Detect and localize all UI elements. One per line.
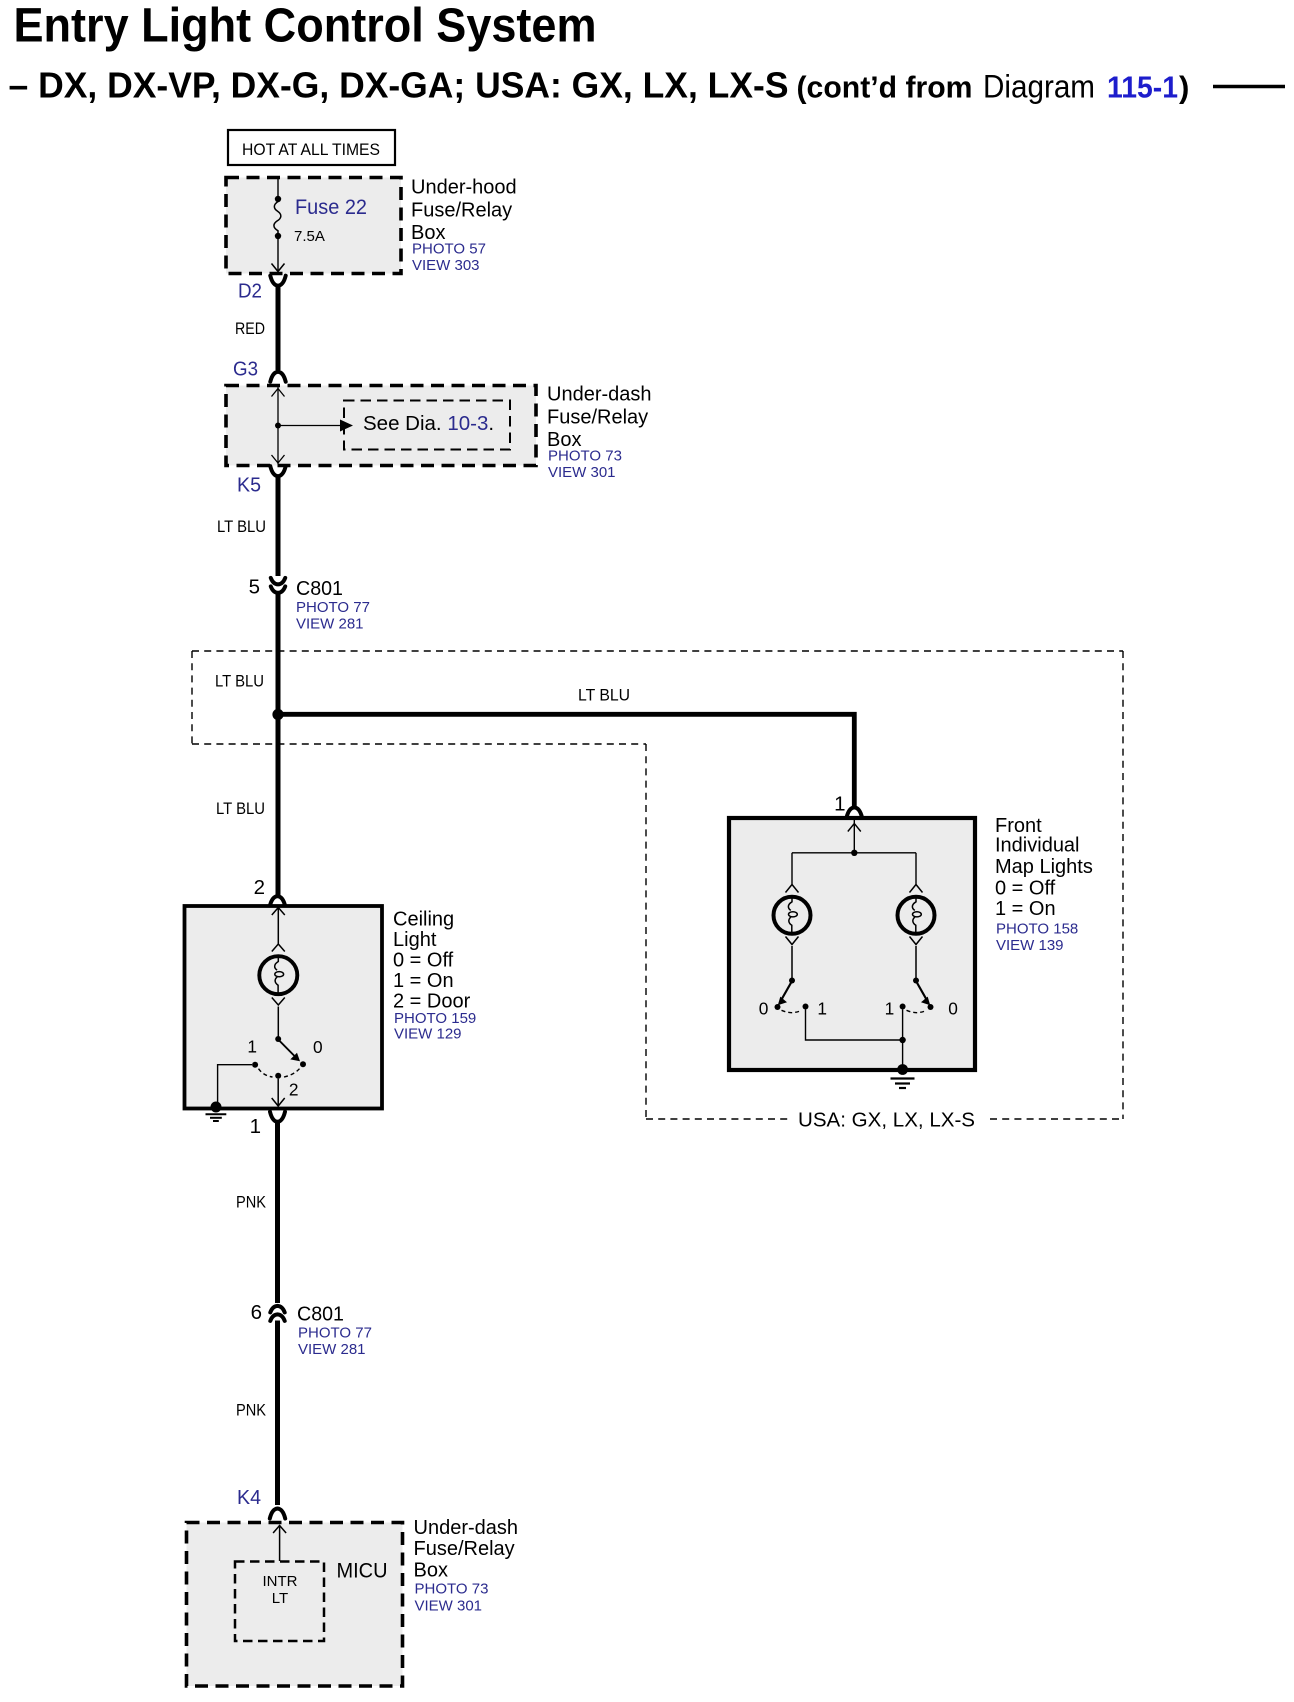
svg-text:LT BLU: LT BLU: [578, 686, 630, 705]
connector C801 pin 6: [251, 1301, 372, 1358]
pin K4: [237, 1486, 285, 1519]
svg-text:PHOTO 73: PHOTO 73: [548, 448, 622, 465]
svg-text:VIEW 129: VIEW 129: [394, 1026, 462, 1043]
svg-text:0: 0: [313, 1037, 323, 1057]
left map switch: [759, 978, 827, 1019]
svg-text:PHOTO 73: PHOTO 73: [415, 1580, 489, 1597]
svg-text:6: 6: [251, 1301, 262, 1324]
svg-text:VIEW 139: VIEW 139: [996, 937, 1064, 954]
svg-text:0 = Off: 0 = Off: [393, 950, 454, 972]
svg-text:– DX, DX-VP, DX-G, DX-GA; USA:: – DX, DX-VP, DX-G, DX-GA; USA: GX, LX, L…: [9, 64, 789, 105]
under-hood fuse/relay box: [226, 177, 517, 275]
svg-text:VIEW 281: VIEW 281: [296, 616, 364, 633]
pin G3: [233, 358, 286, 382]
svg-text:C801: C801: [297, 1303, 344, 1326]
svg-text:Fuse/Relay: Fuse/Relay: [414, 1538, 515, 1560]
under-dash fuse/relay box (MICU): [187, 1517, 519, 1686]
svg-text:PHOTO 159: PHOTO 159: [394, 1010, 476, 1027]
front individual map lights unit: [729, 815, 1093, 1070]
svg-text:1 = On: 1 = On: [995, 898, 1056, 920]
svg-text:PHOTO 158: PHOTO 158: [996, 921, 1078, 938]
pin 2 ceiling light: [254, 876, 286, 906]
svg-text:Fuse/Relay: Fuse/Relay: [411, 200, 512, 222]
wire RED D2 to G3: [276, 286, 281, 371]
svg-text:K4: K4: [237, 1486, 261, 1509]
svg-text:): ): [1179, 69, 1189, 104]
svg-text:VIEW 303: VIEW 303: [412, 257, 480, 274]
right map switch: [885, 978, 958, 1019]
svg-text:2: 2: [289, 1080, 299, 1100]
pin 1 map lights: [834, 793, 862, 818]
pin K5: [237, 466, 286, 496]
svg-text:PHOTO 57: PHOTO 57: [412, 241, 486, 258]
svg-text:Front: Front: [995, 815, 1042, 837]
map lights ground wiring: [806, 1010, 903, 1069]
svg-text:0: 0: [759, 999, 769, 1019]
svg-text:Ceiling: Ceiling: [393, 908, 454, 930]
title dash line: [1213, 85, 1285, 88]
junction in under-dash box: [275, 423, 281, 429]
arrow to See Dia reference: [278, 420, 353, 432]
wire PNK ceiling to C801: [275, 1122, 280, 1304]
ground (map lights): [891, 1064, 915, 1088]
svg-text:Light: Light: [393, 929, 437, 951]
svg-text:C801: C801: [296, 577, 343, 600]
svg-text:RED: RED: [235, 319, 265, 338]
svg-text:VIEW 281: VIEW 281: [298, 1341, 366, 1358]
svg-text:Diagram: Diagram: [983, 68, 1095, 104]
USA variant dashed region boundary: [192, 651, 1123, 1119]
ceiling ground wiring: [218, 1065, 252, 1104]
wire LT BLU junction to map lights: [278, 714, 854, 806]
pin D2: [238, 276, 286, 303]
svg-text:PHOTO 77: PHOTO 77: [296, 599, 370, 616]
svg-text:D2: D2: [238, 280, 262, 303]
svg-text:HOT AT ALL TIMES: HOT AT ALL TIMES: [242, 140, 380, 159]
svg-text:1: 1: [817, 999, 827, 1019]
svg-text:Box: Box: [414, 1559, 448, 1581]
ceiling switch pin2 arrow down: [272, 1079, 285, 1106]
svg-text:VIEW 301: VIEW 301: [548, 464, 616, 481]
ceiling light internal entry arrow: [272, 907, 285, 952]
INTR LT driver box: [235, 1562, 324, 1642]
svg-text:LT BLU: LT BLU: [215, 672, 264, 691]
right map bulb: [898, 885, 935, 979]
wire LT BLU K5 to C801: [276, 476, 281, 577]
wire PNK C801 to K4: [275, 1321, 280, 1506]
svg-text:0: 0: [948, 999, 958, 1019]
svg-text:115-1: 115-1: [1107, 69, 1178, 104]
svg-text:INTR: INTR: [263, 1573, 298, 1590]
junction node: [272, 709, 283, 720]
wire LT BLU C801 to junction: [276, 595, 281, 715]
svg-text:PNK: PNK: [236, 1193, 267, 1212]
svg-text:VIEW 301: VIEW 301: [415, 1597, 483, 1614]
ground (ceiling light): [206, 1102, 227, 1122]
svg-text:Map Lights: Map Lights: [995, 856, 1093, 878]
wire LT BLU junction to ceiling light: [276, 714, 281, 897]
svg-text:K5: K5: [237, 474, 261, 497]
connector C801 pin 5: [249, 576, 370, 633]
fuse F22 7.5A: [272, 179, 368, 272]
svg-text:Fuse/Relay: Fuse/Relay: [547, 407, 648, 429]
svg-text:2: 2: [254, 876, 265, 899]
svg-text:0 = Off: 0 = Off: [995, 878, 1056, 900]
ceiling light unit: [185, 906, 477, 1109]
svg-text:PNK: PNK: [236, 1401, 267, 1420]
svg-text:See Dia. 10-3.: See Dia. 10-3.: [363, 412, 494, 435]
svg-text:LT BLU: LT BLU: [216, 799, 265, 818]
see dia 10-3 reference box: [344, 401, 510, 450]
svg-text:1: 1: [834, 793, 845, 816]
MICU internal arrow: [273, 1525, 286, 1561]
svg-text:Individual: Individual: [995, 835, 1080, 857]
ceiling bulb: [259, 956, 297, 1037]
svg-text:Entry Light Control System: Entry Light Control System: [14, 0, 597, 53]
map lights internal wiring: [792, 820, 916, 884]
svg-text:Under-hood: Under-hood: [411, 177, 517, 199]
svg-text:Under-dash: Under-dash: [547, 384, 652, 406]
svg-text:(cont’d from: (cont’d from: [797, 69, 973, 104]
power label HOT AT ALL TIMES: [228, 130, 395, 165]
svg-text:Under-dash: Under-dash: [414, 1517, 519, 1539]
svg-text:Fuse 22: Fuse 22: [295, 196, 367, 219]
ceiling light switch: [247, 1036, 322, 1100]
svg-text:5: 5: [249, 576, 260, 599]
svg-text:1: 1: [885, 999, 895, 1019]
svg-text:1: 1: [250, 1115, 261, 1138]
svg-text:PHOTO 77: PHOTO 77: [298, 1325, 372, 1342]
under-dash fuse/relay box: [226, 384, 652, 482]
svg-text:MICU: MICU: [337, 1560, 388, 1583]
wire through under-dash box with arrows: [272, 387, 285, 464]
svg-text:G3: G3: [233, 358, 258, 381]
pin 1 ceiling light: [250, 1112, 285, 1138]
svg-text:LT: LT: [272, 1590, 288, 1607]
svg-text:1: 1: [247, 1037, 257, 1057]
svg-text:7.5A: 7.5A: [294, 228, 325, 245]
svg-text:LT BLU: LT BLU: [217, 517, 266, 536]
svg-text:1 = On: 1 = On: [393, 970, 454, 992]
svg-text:USA: GX, LX, LX-S: USA: GX, LX, LX-S: [798, 1109, 975, 1132]
left map bulb: [774, 885, 811, 979]
